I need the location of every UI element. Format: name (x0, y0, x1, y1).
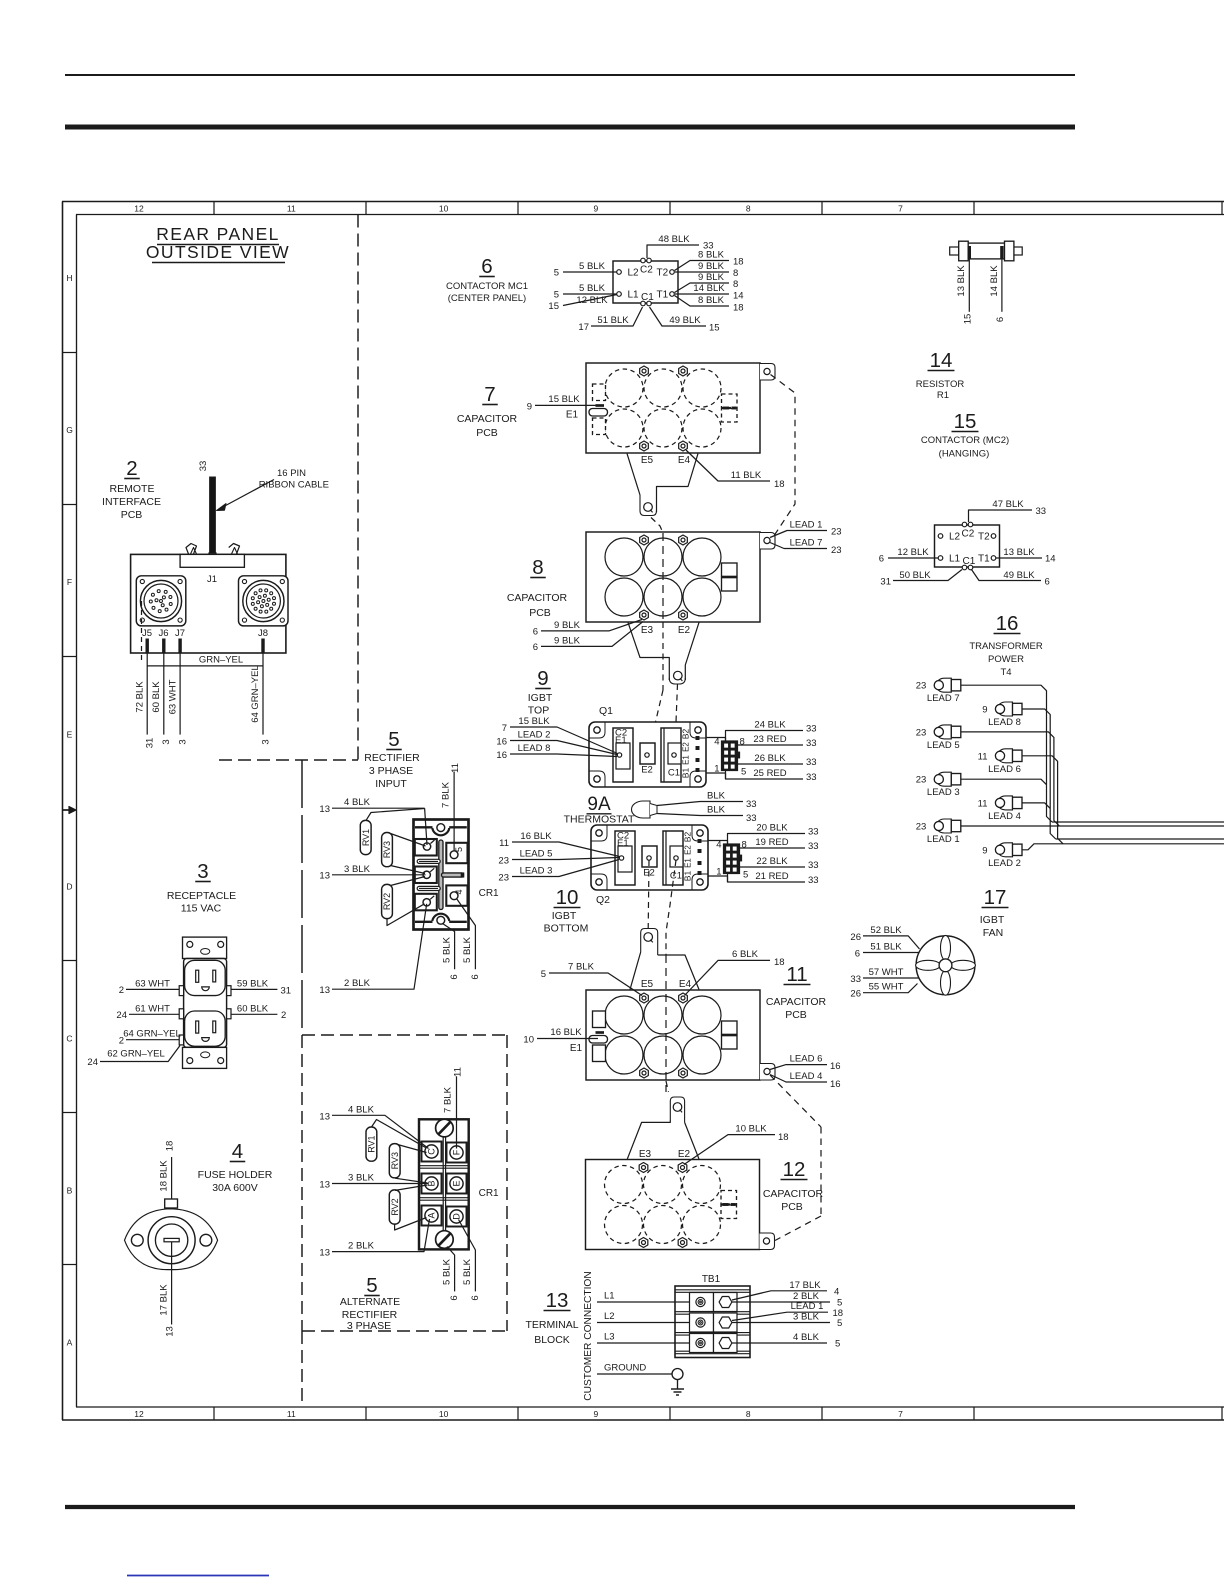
svg-text:RV2: RV2 (390, 1198, 400, 1215)
svg-text:E1: E1 (566, 410, 579, 421)
PCB12 wire 10 BLK / 18 to E2 (684, 1135, 775, 1165)
svg-text:E4: E4 (678, 455, 691, 466)
svg-text:LEAD 1: LEAD 1 (927, 834, 960, 845)
dashed link Q-tab to PCB8 center (651, 518, 663, 534)
svg-text:15: 15 (963, 314, 974, 325)
svg-text:18 BLK: 18 BLK (159, 1160, 170, 1192)
svg-text:T2: T2 (978, 532, 990, 543)
svg-text:13: 13 (319, 1111, 330, 1122)
svg-text:23: 23 (916, 727, 927, 738)
svg-text:6: 6 (995, 317, 1006, 322)
Q1 wire LEAD 2 (510, 741, 617, 755)
Q2 wire 20 BLK (728, 834, 806, 845)
svg-text:2: 2 (126, 457, 137, 480)
CR1 left terminal 3 (415, 839, 437, 856)
fan wire 33 / 57 WHT (863, 977, 919, 979)
frame left arrow marker (62, 809, 73, 811)
svg-text:E1: E1 (682, 755, 691, 765)
svg-text:Q1: Q1 (599, 705, 613, 717)
fan wire 6 / 51 BLK (863, 952, 919, 954)
MC2 wire 50 BLK from C1 (893, 570, 962, 581)
CR1 left terminal 2 (415, 867, 437, 884)
CR1 right terminal 4 (446, 885, 467, 905)
thermostat wire BLK lower (657, 814, 743, 816)
svg-text:18: 18 (774, 957, 785, 968)
wire 72 BLK from J5 (146, 654, 148, 735)
svg-text:1: 1 (714, 764, 719, 775)
svg-text:RIBBON CABLE: RIBBON CABLE (259, 480, 329, 491)
dashed center line through PCB8 (662, 533, 664, 622)
PCB11 wire 5 / 7 BLK to E5 (549, 973, 642, 996)
svg-text:33: 33 (746, 813, 757, 824)
svg-text:9: 9 (537, 667, 548, 690)
svg-text:7 BLK: 7 BLK (441, 781, 452, 808)
svg-text:CONTACTOR MC1: CONTACTOR MC1 (446, 281, 528, 292)
wire 60 BLK (231, 1013, 277, 1015)
Q2 connector block (708, 840, 728, 842)
svg-text:TOP: TOP (528, 705, 549, 717)
svg-text:LEAD 4: LEAD 4 (790, 1071, 823, 1082)
16-pin ribbon cable (black bar) (210, 477, 216, 553)
svg-text:33: 33 (850, 974, 861, 985)
svg-text:THERMOSTAT: THERMOSTAT (564, 814, 635, 826)
PCB7 wire 9 / 15 BLK / E1 (535, 404, 598, 406)
svg-text:3: 3 (178, 739, 189, 744)
transformer LEAD 7 lug (936, 678, 951, 692)
MC1 wire 5 BLK to L2 (563, 271, 617, 273)
Q2 E2 terminal (642, 846, 657, 867)
svg-text:11: 11 (452, 1067, 463, 1077)
svg-text:15: 15 (954, 410, 977, 433)
svg-text:9 BLK: 9 BLK (554, 636, 581, 647)
svg-text:4: 4 (232, 1140, 243, 1163)
svg-text:E1: E1 (570, 1043, 583, 1054)
svg-text:14 BLK: 14 BLK (989, 265, 1000, 297)
CR1 left terminal 1 (415, 894, 437, 911)
svg-text:6: 6 (1045, 577, 1050, 588)
transformer LEAD 8 lug (997, 702, 1012, 716)
svg-text:E2: E2 (678, 625, 691, 636)
svg-text:L2: L2 (628, 268, 640, 279)
svg-text:GRN–YEL: GRN–YEL (199, 655, 243, 666)
svg-text:13: 13 (319, 985, 330, 996)
svg-text:15: 15 (548, 301, 559, 312)
varistor RV2 (alt) (389, 1190, 400, 1224)
svg-text:LEAD 1: LEAD 1 (790, 520, 823, 531)
svg-text:CAPACITOR: CAPACITOR (507, 592, 568, 604)
PCB8 LEAD 1 flag (770, 531, 827, 538)
RV2 tail to terminal 2 (391, 877, 426, 886)
wire L2 (597, 1322, 690, 1324)
transformer LEAD 4 lug (997, 796, 1012, 810)
svg-text:9: 9 (527, 402, 532, 413)
svg-text:LEAD 8: LEAD 8 (518, 743, 551, 754)
svg-text:49 BLK: 49 BLK (1003, 570, 1035, 581)
svg-text:19 RED: 19 RED (755, 837, 788, 848)
svg-text:12: 12 (783, 1158, 806, 1181)
svg-text:25 RED: 25 RED (753, 768, 786, 779)
svg-text:5: 5 (837, 1318, 842, 1329)
svg-text:60 BLK: 60 BLK (237, 1004, 269, 1015)
Q2 wire 19 RED (740, 847, 806, 849)
svg-text:9: 9 (982, 705, 987, 716)
zone boundary dashed below box (301, 1331, 303, 1407)
svg-text:5 BLK: 5 BLK (579, 261, 606, 272)
Q-tab below PCB8 (669, 678, 685, 684)
svg-text:16 PIN: 16 PIN (277, 468, 306, 479)
svg-text:6: 6 (879, 554, 884, 565)
svg-text:B: B (427, 1180, 437, 1186)
fuse holder flange (125, 1209, 218, 1270)
svg-text:LEAD 6: LEAD 6 (790, 1054, 823, 1065)
CR1 bottom mounting hole and arc (415, 921, 433, 923)
PCB11 LEAD 4 flag (770, 1075, 827, 1083)
svg-text:9 BLK: 9 BLK (698, 272, 725, 283)
svg-text:17 BLK: 17 BLK (159, 1284, 170, 1316)
svg-text:TB1: TB1 (702, 1274, 721, 1285)
MC2 wire 49 BLK from C1 right (972, 570, 1042, 581)
receptacle top mounting plate (183, 937, 227, 958)
svg-text:3 BLK: 3 BLK (348, 1173, 375, 1184)
Q1 E2 terminal (640, 743, 655, 764)
PCB8 wire 6 / 9 BLK upper (541, 620, 642, 631)
varistor RV3 (alt) (389, 1144, 400, 1178)
varistor RV1 (360, 820, 371, 854)
svg-text:E5: E5 (641, 979, 654, 990)
CR1 mid horizontal trace (442, 873, 464, 877)
svg-text:8: 8 (740, 737, 745, 748)
svg-text:J7: J7 (175, 628, 185, 639)
svg-text:9 BLK: 9 BLK (554, 620, 581, 631)
svg-text:57 WHT: 57 WHT (869, 967, 904, 978)
svg-text:6: 6 (449, 1295, 460, 1300)
svg-text:4 BLK: 4 BLK (344, 797, 371, 808)
svg-text:LEAD 2: LEAD 2 (988, 858, 1021, 869)
svg-text:6: 6 (470, 974, 481, 979)
svg-text:12: 12 (134, 204, 144, 214)
MC1 wire 51 BLK from C1 (591, 307, 643, 326)
alt CR1 terminal F (447, 1143, 467, 1163)
MC1 wire 8 BLK from T2 (675, 261, 730, 271)
svg-text:C1: C1 (963, 556, 976, 567)
svg-text:T1: T1 (978, 554, 990, 565)
svg-text:2: 2 (119, 985, 124, 996)
svg-text:11: 11 (786, 963, 807, 986)
transformer lead wires to bundle (961, 685, 1053, 822)
svg-text:16: 16 (830, 1079, 841, 1090)
MC1 wire 48 BLK to 33 (647, 245, 699, 258)
svg-text:5 BLK: 5 BLK (462, 1258, 473, 1285)
svg-text:C2: C2 (962, 529, 975, 540)
svg-text:24: 24 (116, 1010, 127, 1021)
thermostat wire BLK upper (657, 802, 743, 806)
svg-text:8: 8 (746, 204, 751, 214)
svg-text:50 BLK: 50 BLK (899, 570, 931, 581)
MC1 wire 49 BLK from C1 (650, 307, 707, 326)
receptacle side terminal tabs (179, 986, 183, 996)
Q2 C1 terminal (663, 831, 683, 885)
svg-text:5 BLK: 5 BLK (579, 283, 606, 294)
Q1 wire 15 BLK (510, 727, 618, 754)
svg-text:30A 600V: 30A 600V (212, 1182, 258, 1194)
fuse holder top terminal pad (165, 1199, 178, 1208)
svg-text:7 BLK: 7 BLK (443, 1086, 454, 1113)
svg-text:5: 5 (554, 268, 559, 279)
MC1 wire 9 BLK from T1 (675, 283, 730, 293)
svg-text:RECEPTACLE: RECEPTACLE (167, 890, 236, 902)
svg-text:F: F (452, 1149, 462, 1155)
svg-text:L3: L3 (604, 1332, 615, 1343)
svg-text:CUSTOMER CONNECTION: CUSTOMER CONNECTION (583, 1271, 594, 1400)
alt CR1 column divider traces (442, 1119, 444, 1249)
rectifier CR1 body (414, 820, 469, 930)
alt CR1 bottom screw (436, 1231, 454, 1249)
alt CR1 top screw (436, 1119, 454, 1137)
svg-text:RV3: RV3 (382, 841, 392, 858)
svg-text:E5: E5 (641, 455, 654, 466)
header rule thin (65, 74, 1075, 76)
wire 18 BLK up (171, 1157, 173, 1199)
svg-text:IGBT: IGBT (552, 910, 577, 922)
varistor RV1 (alt) (366, 1127, 377, 1161)
svg-text:PCB: PCB (785, 1009, 807, 1021)
svg-text:LEAD 5: LEAD 5 (927, 740, 960, 751)
alt CR1 terminal E (447, 1174, 467, 1194)
Q1 wire 25 RED (726, 771, 804, 780)
svg-text:4: 4 (714, 737, 719, 748)
svg-text:63 WHT: 63 WHT (167, 679, 178, 714)
svg-text:33: 33 (808, 827, 819, 838)
svg-text:8 BLK: 8 BLK (698, 295, 725, 306)
svg-text:15 BLK: 15 BLK (518, 716, 550, 727)
svg-text:REAR PANEL: REAR PANEL (156, 224, 280, 244)
svg-text:T2: T2 (657, 268, 669, 279)
svg-text:13 BLK: 13 BLK (956, 265, 967, 297)
alternate rectifier dashed box (302, 1034, 507, 1036)
svg-text:64 GRN–YEL: 64 GRN–YEL (123, 1029, 181, 1040)
svg-text:8: 8 (733, 268, 738, 279)
svg-text:23: 23 (498, 873, 509, 884)
transformer LEAD 6 lug (997, 749, 1012, 763)
svg-text:51 BLK: 51 BLK (870, 942, 902, 953)
svg-text:33: 33 (806, 757, 817, 768)
alternate rectifier CR1 body (419, 1119, 469, 1249)
svg-text:13: 13 (319, 871, 330, 882)
svg-text:11 BLK: 11 BLK (731, 470, 762, 481)
svg-text:13: 13 (319, 804, 330, 815)
funnel Q2 to PCB11 tab (641, 929, 658, 956)
MC1 wire 14 BLK from T1 (675, 293, 729, 295)
svg-text:CAPACITOR: CAPACITOR (766, 996, 827, 1008)
svg-text:5: 5 (554, 290, 559, 301)
svg-text:E2: E2 (641, 765, 653, 776)
wire 13 / 4 BLK into terminal C (332, 1115, 429, 1148)
svg-text:5: 5 (541, 969, 546, 980)
svg-text:GROUND: GROUND (604, 1363, 646, 1374)
footer rule (65, 1505, 1075, 1509)
svg-text:9: 9 (594, 1409, 599, 1419)
fuse cap slot (164, 1238, 179, 1241)
svg-text:24: 24 (87, 1057, 98, 1068)
svg-text:33: 33 (806, 738, 817, 749)
svg-text:E4: E4 (679, 979, 692, 990)
svg-text:RV1: RV1 (367, 1135, 377, 1152)
zone boundary vertical line to alternate rectifier box (301, 760, 303, 1035)
svg-text:E1: E1 (615, 735, 627, 746)
svg-text:10 BLK: 10 BLK (735, 1124, 767, 1135)
fan blades (941, 935, 951, 960)
dashed from Q-tab to Q1 C1 (675, 684, 678, 750)
wire 62 GRN-YEL (100, 1046, 180, 1062)
svg-text:18: 18 (774, 479, 785, 490)
transformer LEAD 2 lug (997, 843, 1012, 857)
svg-text:9: 9 (594, 204, 599, 214)
PCB8 LEAD 7 flag (770, 543, 827, 549)
svg-text:5 BLK: 5 BLK (462, 936, 473, 963)
svg-text:8: 8 (742, 840, 747, 851)
svg-text:21 RED: 21 RED (755, 871, 788, 882)
svg-text:8: 8 (733, 279, 738, 290)
svg-text:C1: C1 (670, 871, 682, 882)
TB1 row L1 (690, 1293, 714, 1312)
svg-text:7: 7 (898, 204, 903, 214)
svg-text:6: 6 (481, 255, 492, 278)
svg-text:T4: T4 (1000, 667, 1011, 678)
svg-text:59 BLK: 59 BLK (237, 979, 269, 990)
resistor R1 body (950, 247, 959, 255)
wire 59 BLK (231, 988, 277, 990)
svg-text:B: B (67, 1186, 73, 1196)
svg-text:LEAD 6: LEAD 6 (988, 764, 1021, 775)
RV3 tail to terminal B (alt) (395, 1178, 428, 1183)
svg-text:F: F (67, 577, 72, 587)
svg-text:33: 33 (808, 841, 819, 852)
receptacle body (184, 959, 227, 1048)
svg-text:B1: B1 (683, 871, 693, 882)
Q1 wire 24 BLK (726, 731, 804, 742)
IGBT module Q2 body (591, 825, 708, 890)
svg-text:7: 7 (484, 383, 495, 406)
svg-text:61 WHT: 61 WHT (135, 1004, 170, 1015)
alt CR1 terminal B (422, 1174, 442, 1194)
CR1 top mounting hole and arc (415, 826, 433, 828)
svg-text:7: 7 (898, 1409, 903, 1419)
svg-text:14: 14 (930, 349, 953, 372)
svg-text:(HANGING): (HANGING) (939, 449, 990, 460)
svg-text:INTERFACE: INTERFACE (102, 496, 161, 508)
CR1 right terminal 5 (446, 843, 467, 863)
svg-text:33: 33 (808, 875, 819, 886)
svg-text:23 RED: 23 RED (753, 734, 786, 745)
RV3 tail to terminal 3 (391, 834, 426, 847)
svg-text:B1: B1 (681, 768, 691, 779)
svg-text:BLK: BLK (707, 791, 726, 802)
frame inner border (76, 214, 1224, 216)
fan wire 26 / 55 WHT (863, 984, 918, 993)
capacitor PCB 8 (586, 532, 760, 622)
dashed from Q2 C1 down to PCB11 center (666, 860, 676, 955)
Q2 C2/E1 terminal (615, 831, 635, 885)
svg-text:J6: J6 (158, 628, 168, 639)
svg-text:PCB: PCB (529, 607, 551, 619)
svg-text:L1: L1 (604, 1291, 615, 1302)
svg-text:B2: B2 (681, 729, 691, 740)
capacitor PCB 7 (586, 363, 760, 453)
svg-text:33: 33 (806, 724, 817, 735)
svg-text:E1: E1 (684, 858, 693, 868)
svg-text:J1: J1 (207, 574, 217, 585)
svg-text:22 BLK: 22 BLK (756, 856, 788, 867)
svg-text:L2: L2 (949, 532, 961, 543)
svg-text:BLOCK: BLOCK (534, 1334, 570, 1346)
TB1 row L2 (690, 1313, 714, 1332)
svg-text:20 BLK: 20 BLK (756, 823, 788, 834)
svg-text:18: 18 (778, 1132, 789, 1143)
CR1 center vertical trace (439, 840, 443, 910)
PCB11 wire 10 / 16 BLK / E1 (537, 1038, 598, 1040)
svg-text:17 BLK: 17 BLK (789, 1280, 821, 1291)
svg-text:CONTACTOR (MC2): CONTACTOR (MC2) (921, 435, 1009, 446)
svg-text:14 BLK: 14 BLK (693, 283, 725, 294)
Q1 wire 23 RED (738, 744, 804, 746)
svg-text:G: G (66, 425, 73, 435)
receptacle outlet face lower (185, 1011, 226, 1046)
svg-text:5: 5 (837, 1298, 842, 1309)
svg-text:5: 5 (741, 767, 746, 778)
connector J1 notch (180, 554, 244, 567)
Q2 wire LEAD 3 (512, 860, 619, 877)
funnel PCB11 to PCB12 via tab (666, 1081, 669, 1092)
wire 5 BLK / 6 from terminal 4 (457, 899, 476, 970)
svg-text:J5: J5 (142, 628, 152, 639)
footer blue link line (127, 1575, 269, 1577)
Q1 C1 terminal (661, 728, 681, 782)
dashed from Q2 E2 down to tab (647, 860, 650, 929)
frame outer border (62, 201, 1224, 203)
svg-text:4: 4 (716, 840, 721, 851)
svg-text:LEAD 7: LEAD 7 (927, 693, 960, 704)
svg-text:6: 6 (855, 948, 860, 959)
contactor MC2 (935, 525, 1000, 567)
svg-text:1: 1 (716, 867, 721, 878)
svg-text:POWER: POWER (988, 654, 1024, 665)
RV1 tail to terminal C (alt) (372, 1120, 426, 1148)
svg-text:7: 7 (502, 723, 507, 734)
svg-text:33: 33 (198, 461, 209, 472)
svg-text:18: 18 (733, 303, 744, 314)
svg-text:3: 3 (197, 860, 208, 883)
RV2 tail to terminal 1 (387, 904, 425, 926)
svg-text:J8: J8 (258, 628, 268, 639)
wire 13 / 3 BLK into terminal B (332, 1183, 428, 1185)
svg-text:LEAD 4: LEAD 4 (988, 811, 1021, 822)
MC1 wire 5 BLK to L1 (563, 293, 617, 295)
transformer LEAD 1 lug (936, 819, 951, 833)
svg-text:E3: E3 (641, 625, 654, 636)
svg-text:12 BLK: 12 BLK (897, 547, 929, 558)
svg-text:PCB: PCB (781, 1201, 803, 1213)
TB1 wire LEAD 1 / 18 (732, 1312, 828, 1320)
wire 63 WHT (126, 988, 179, 990)
TB1 wire 2 BLK / 5 (732, 1301, 830, 1303)
connector J8 circular (right) (239, 576, 289, 626)
RV3 tail to terminal 2 (391, 866, 426, 874)
wire J8 stub (261, 639, 264, 654)
MC1 wire 8 BLK from T1 down (675, 296, 730, 307)
svg-text:PCB: PCB (121, 509, 143, 521)
svg-text:33: 33 (746, 799, 757, 810)
svg-text:IGBT: IGBT (980, 914, 1005, 926)
